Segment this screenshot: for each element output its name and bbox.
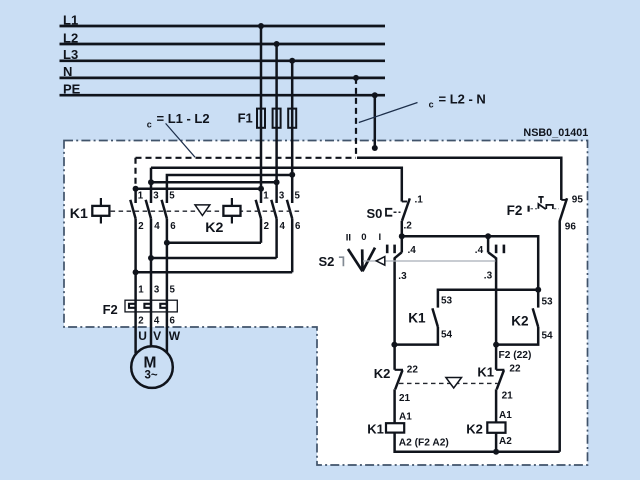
contactor K2 pole 1 blade <box>256 200 261 219</box>
wire L1 drop to fuse F1 pole1 and contactor K2 pole 1 <box>260 26 263 203</box>
wire S0 node to latch feed <box>402 236 538 289</box>
contactor K2 pole 3 blade <box>271 200 276 219</box>
junction latch feed node <box>535 287 541 293</box>
svg-text:54: 54 <box>441 330 453 341</box>
junction K2 54 to right rail <box>493 342 499 348</box>
rail PE <box>60 94 386 97</box>
wire output crossover K2-6 to K1-2 <box>136 271 293 274</box>
wire cable c N conductor (dashed) <box>355 78 357 158</box>
svg-text:A1: A1 <box>499 410 512 421</box>
stop button S0 actuator <box>386 209 392 216</box>
svg-text:1: 1 <box>263 191 269 202</box>
wire crossover L3 to K1 pole 5 <box>167 175 292 203</box>
svg-text:6: 6 <box>170 221 176 232</box>
selector S2 right terminal .4 stub <box>487 236 490 252</box>
overload aux contact F2 95 foot <box>561 199 566 201</box>
svg-text:22: 22 <box>407 365 419 376</box>
junction output crossover on K1-6 <box>164 240 170 246</box>
junction L1 wire to K2 pole1 <box>258 186 264 192</box>
wire K1 NC to coil K2 <box>495 389 498 422</box>
interlock contact K2 21-22 blade <box>395 370 402 389</box>
svg-text:.4: .4 <box>475 245 484 256</box>
interlock contact K2 21-22 tick <box>395 369 403 371</box>
svg-text:53: 53 <box>542 297 554 308</box>
contactor K1 pole 5 blade <box>162 200 167 219</box>
svg-text:2: 2 <box>138 221 143 232</box>
junction output crossover on K1-2 <box>133 269 139 275</box>
svg-text:= L2 - N: = L2 - N <box>439 91 486 106</box>
svg-text:96: 96 <box>565 221 577 232</box>
wire F2 96 rail <box>558 220 561 451</box>
fuse F1 pole 2 body <box>273 109 281 128</box>
svg-text:5: 5 <box>169 191 175 202</box>
fuse F1 pole 1 body <box>257 109 265 128</box>
svg-text:L3: L3 <box>63 47 78 62</box>
selector S2 left tick 1 <box>386 245 389 254</box>
svg-text:54: 54 <box>542 331 554 342</box>
selector S2 linkage triangle <box>376 257 385 266</box>
svg-text:c: c <box>429 100 434 110</box>
selector S2 right tick 2 <box>503 245 506 254</box>
contactor K1 coil actuator box <box>92 206 109 216</box>
svg-text:K1: K1 <box>477 364 494 379</box>
overload relay F2 main body box <box>125 300 177 312</box>
svg-text:1: 1 <box>138 191 144 202</box>
svg-text:4: 4 <box>280 221 286 232</box>
overload F2 trip tick <box>527 206 529 212</box>
contactor K1 pole 1 blade <box>130 200 135 219</box>
wire K2 pole 4 output stub <box>275 219 278 258</box>
selector S2 fan position II <box>348 249 363 271</box>
wire K1 54 return to left rail <box>394 327 438 345</box>
svg-text:3: 3 <box>279 191 285 202</box>
wire S0 output <box>401 221 404 237</box>
svg-text:L2: L2 <box>63 30 78 45</box>
svg-text:F2: F2 <box>103 302 118 317</box>
svg-text:K2: K2 <box>205 220 223 236</box>
fuse F1 pole 3 body <box>288 109 296 128</box>
junction dots control circuit <box>391 233 541 454</box>
overload F2 heater element pole 3 <box>160 304 167 308</box>
selector S2 right tick 1 <box>495 245 498 254</box>
svg-text:c: c <box>147 120 152 130</box>
wire K1 pole 2 output down to F2 and motor U <box>134 219 137 354</box>
svg-text:53: 53 <box>441 296 453 307</box>
selector S2 right blade <box>488 252 496 258</box>
junction L3 wire to K2 pole5 <box>289 172 295 178</box>
svg-text:F2: F2 <box>507 203 523 218</box>
svg-text:0: 0 <box>361 232 366 243</box>
junction K2 branch tap <box>485 233 491 239</box>
pointer line label c=L1-L2 <box>166 123 195 157</box>
junction PE tap <box>372 92 378 98</box>
wire K1 pole 4 output down to F2 and motor V <box>150 219 153 347</box>
stop button S0 blade <box>402 198 410 220</box>
junction PE stub end <box>372 145 378 151</box>
svg-text:4: 4 <box>154 221 160 232</box>
cable c = L1-L2 boundary dashed vertical <box>134 158 136 189</box>
rail L3 <box>60 59 386 62</box>
svg-text:6: 6 <box>170 316 176 327</box>
rail N <box>60 77 386 80</box>
wire K1 pole 3 top terminal <box>150 168 153 203</box>
svg-text:3~: 3~ <box>144 369 157 381</box>
svg-text:I: I <box>379 232 382 243</box>
junction L1 tap <box>258 23 264 29</box>
stop button S0 contact foot <box>402 201 407 203</box>
selector S2 left terminal .4 stub <box>401 236 404 252</box>
aux contact K1 53-54 blade <box>432 308 438 327</box>
svg-text:.3: .3 <box>484 271 493 282</box>
svg-text:3: 3 <box>154 285 160 296</box>
wire coil K1 A2 to common <box>395 433 560 452</box>
overload F2 trip hump <box>546 205 553 209</box>
svg-text:NSB0_01401: NSB0_01401 <box>523 127 588 139</box>
svg-text:.4: .4 <box>408 245 417 256</box>
svg-text:.1: .1 <box>415 194 424 205</box>
contactor K1 pole 3 blade <box>146 200 151 219</box>
svg-text:F1: F1 <box>238 111 253 126</box>
wire left rail S2 to K2 NC <box>393 258 396 370</box>
svg-text:S0: S0 <box>367 206 383 221</box>
svg-text:21: 21 <box>399 393 411 404</box>
svg-text:K2: K2 <box>511 314 529 329</box>
svg-text:A2: A2 <box>499 436 512 447</box>
wire L3 drop to fuse F1 pole3 and contactor K2 pole 5 <box>291 61 294 203</box>
svg-text:= L1 - L2: = L1 - L2 <box>157 111 210 126</box>
overload F2 trip link dashes right <box>554 208 559 210</box>
enclosure white region <box>64 141 588 466</box>
wire K2 pole 2 output stub <box>260 219 263 243</box>
svg-text:2: 2 <box>138 316 143 327</box>
wire K2 54 return to right rail <box>496 327 538 345</box>
junction coil K2 A2 to common <box>493 449 499 455</box>
junction K1 pole3 L2 link <box>148 179 154 185</box>
rail L2 <box>60 43 386 46</box>
svg-text:6: 6 <box>295 221 301 232</box>
svg-text:2: 2 <box>264 221 269 232</box>
aux contact K2 53-54 blade <box>533 308 539 327</box>
junction L3 tap <box>289 58 295 64</box>
svg-text:A1: A1 <box>399 411 412 422</box>
wire K2 NC to coil K1 <box>393 389 396 423</box>
svg-text:K2: K2 <box>466 422 483 437</box>
wire crossover L1 to K1 pole 1 <box>136 189 261 203</box>
junction L2 wire to K2 pole3 <box>274 179 280 185</box>
stop button S0 actuator link dashes <box>394 211 401 213</box>
coil K1 body <box>386 423 404 432</box>
mechanical interlock dashed link control <box>399 382 498 384</box>
wire PE stub <box>374 95 377 148</box>
svg-text:A2 (F2 A2): A2 (F2 A2) <box>399 437 449 448</box>
mechanical interlock dashed link K1-K2 main <box>111 210 300 212</box>
selector S2 fan position I <box>363 248 376 272</box>
svg-text:K1: K1 <box>70 206 88 222</box>
wire output crossover K2-4 to K1-4 <box>151 257 277 260</box>
svg-text:II: II <box>346 233 351 244</box>
svg-text:K2: K2 <box>374 366 391 381</box>
junction output crossover on K1-4 <box>148 255 154 261</box>
svg-text:S2: S2 <box>319 254 335 269</box>
svg-text:3: 3 <box>153 191 159 202</box>
svg-text:95: 95 <box>572 195 584 206</box>
junction K1 pole1 feed <box>133 186 139 192</box>
overload F2 trip T mark <box>538 197 543 203</box>
selector S2 left tick 2 <box>393 245 396 254</box>
svg-text:1: 1 <box>138 285 144 296</box>
svg-text:21: 21 <box>502 390 514 401</box>
wire N conductor to F2 aux 95 <box>357 158 561 200</box>
svg-text:W: W <box>169 329 181 343</box>
mechanical interlock triangle main <box>195 205 210 216</box>
interlock contact K1 21-22 tick <box>496 369 504 371</box>
wire right rail S2 to K1 NC <box>495 258 498 370</box>
svg-text:5: 5 <box>170 285 176 296</box>
junction L2 tap <box>274 41 280 47</box>
junction K1 54 to left rail <box>391 342 397 348</box>
enclosure boundary dash-dot frame <box>64 141 588 466</box>
motor M 3~ circle <box>131 346 173 388</box>
overload F2 trip link dashes left <box>531 208 538 210</box>
wire latch feed to K1 aux 53 <box>438 290 538 308</box>
wire L2 drop to fuse F1 pole2 and contactor K2 pole 3 <box>275 44 278 203</box>
contactor K2 pole 5 blade <box>287 200 292 219</box>
selector S2 fan position 0 <box>361 249 364 271</box>
wire coil K2 A2 stub <box>495 433 498 452</box>
contactor K2 coil actuator box <box>223 206 240 216</box>
wire K1 pole 6 output down to F2 and motor W <box>166 219 169 354</box>
svg-text:U: U <box>138 329 147 343</box>
rail L1 <box>60 25 386 28</box>
overload aux contact F2 95-96 blade <box>560 198 567 220</box>
wire control supply tap L2 to S0 <box>151 168 402 202</box>
svg-text:5: 5 <box>295 191 301 202</box>
wire K2 pole 6 output stub <box>291 219 294 273</box>
junction S0 output node <box>399 233 405 239</box>
svg-text:L1: L1 <box>63 12 78 27</box>
selector S2 handle mark <box>339 257 344 266</box>
pointer line label c=L2-N <box>359 103 418 123</box>
junction N tap <box>353 75 359 81</box>
wire output crossover K2-2 to K1-6 <box>167 242 261 245</box>
coil K2 body <box>487 422 505 432</box>
svg-text:PE: PE <box>63 82 81 97</box>
svg-text:K1: K1 <box>367 422 384 437</box>
cable c = L1-L2 boundary dashed horizontal <box>136 157 357 159</box>
contactor K2 actuator stubs <box>231 198 233 224</box>
svg-text:4: 4 <box>154 316 160 327</box>
junction dots main circuit <box>133 23 378 275</box>
aux contact K2 53-54 terminal <box>537 290 540 308</box>
overload F2 heater element pole 2 <box>144 304 151 308</box>
svg-text:.3: .3 <box>398 271 407 282</box>
mechanical interlock triangle control <box>446 378 462 389</box>
wire crossover L2 to K1 pole 3 <box>151 181 277 184</box>
svg-text:V: V <box>153 329 161 343</box>
contactor K1 actuator stubs <box>100 198 102 224</box>
overload F2 heater element pole 1 <box>129 304 136 308</box>
svg-text:K1: K1 <box>408 311 426 326</box>
selector S2 left blade <box>395 252 402 258</box>
overload F2 trip lever <box>538 204 545 209</box>
svg-text:.2: .2 <box>404 221 413 232</box>
interlock contact K1 21-22 blade <box>497 370 504 389</box>
svg-text:N: N <box>63 64 72 79</box>
selector S2 linkage thin line <box>363 260 496 262</box>
svg-text:F2 (22): F2 (22) <box>499 350 532 361</box>
svg-text:22: 22 <box>509 364 521 375</box>
